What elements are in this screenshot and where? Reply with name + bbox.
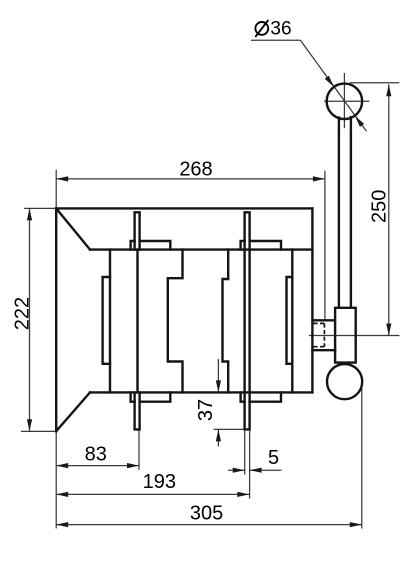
svg-text:222: 222: [11, 297, 33, 330]
svg-text:250: 250: [369, 190, 391, 223]
svg-text:268: 268: [179, 158, 212, 180]
svg-text:36: 36: [270, 18, 291, 39]
svg-text:83: 83: [85, 444, 107, 466]
svg-text:37: 37: [195, 399, 217, 421]
svg-text:305: 305: [190, 502, 223, 524]
svg-text:193: 193: [143, 471, 176, 493]
svg-text:5: 5: [268, 447, 279, 469]
